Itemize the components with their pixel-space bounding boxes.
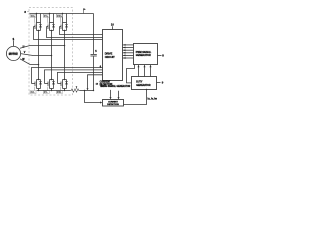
- upper transistor cell Tv+: [47, 13, 55, 31]
- svg-text:3: 3: [24, 10, 26, 14]
- diode Du+: [40, 23, 42, 31]
- junction dots: [36, 13, 37, 14]
- gate bar: [34, 25, 36, 30]
- current detection block 11: [103, 100, 124, 107]
- svg-text:CIRCUIT: CIRCUIT: [105, 55, 115, 59]
- lower gate bus to Tv-: [45, 70, 103, 84]
- timing->current-detection arrow b: [118, 91, 120, 99]
- lower gate bus to Tw-: [58, 72, 103, 83]
- svg-text:2W+: 2W+: [57, 14, 63, 18]
- svg-text:9: 9: [162, 81, 164, 85]
- current detection output wire to duty generator: [124, 90, 147, 105]
- svg-text:TIMING SIGNAL GENERATOR: TIMING SIGNAL GENERATOR: [100, 85, 131, 88]
- upper gate bus to Tw+: [60, 27, 103, 35]
- svg-text:2V+: 2V+: [44, 14, 49, 18]
- upper transistor cell Tu+: [34, 13, 42, 31]
- pin stub + label 10: [112, 26, 114, 29]
- svg-text:2U-: 2U-: [31, 90, 35, 94]
- phase leg node w: [64, 31, 66, 80]
- svg-text:7: 7: [76, 86, 78, 89]
- timing->current-detection arrow a: [110, 90, 112, 99]
- bottom DC rail (right part): [80, 90, 94, 92]
- svg-text:8: 8: [162, 54, 164, 58]
- motor M1: [6, 46, 20, 60]
- phase leg node v: [51, 31, 53, 80]
- upper gate bus to Tv+: [47, 27, 103, 38]
- shunt tap wire to current detection: [85, 91, 102, 103]
- gate signal lines pwm->drive (6): [123, 44, 134, 59]
- label Tw+: [56, 14, 62, 24]
- smoothing capacitor 5: [93, 14, 95, 55]
- upper transistor cell Tw+: [60, 13, 68, 31]
- duty->pwm arrow u: [138, 65, 140, 76]
- bottom DC rail (N bus): [37, 90, 71, 92]
- node P flag: [83, 9, 85, 14]
- lower transistor cell Tw-: [58, 79, 68, 91]
- inverter dashed enclosure (block 3): [29, 8, 73, 96]
- label Tu-: [30, 86, 36, 94]
- svg-text:W: W: [22, 58, 25, 61]
- PWM signal generator block 8: [134, 44, 158, 65]
- shunt resistor 7: [71, 89, 80, 92]
- svg-text:iu, iv, iw: iu, iv, iw: [148, 97, 158, 101]
- svg-text:12: 12: [96, 83, 99, 85]
- label Tv-: [43, 86, 49, 94]
- svg-text:10: 10: [111, 23, 114, 27]
- phase leg node u: [38, 31, 40, 80]
- svg-text:DUTY: DUTY: [136, 82, 143, 84]
- gate lead: [34, 26, 36, 28]
- svg-text:GENERATOR: GENERATOR: [136, 84, 151, 87]
- top join: [37, 22, 41, 24]
- svg-text:2U+: 2U+: [31, 14, 36, 18]
- shunt sense bus: [88, 75, 103, 90]
- svg-text:5: 5: [95, 50, 97, 53]
- wire drain stubs: [36, 14, 38, 23]
- duty->pwm arrow v: [144, 65, 146, 76]
- label Tw-: [56, 86, 62, 94]
- pin + label 9: [157, 82, 161, 84]
- drive circuit block 10: [103, 30, 123, 81]
- svg-text:V: V: [24, 51, 26, 54]
- duty->pwm arrow w: [150, 65, 152, 76]
- timing generator caption: [100, 82, 131, 88]
- motor line U: [20, 46, 65, 49]
- svg-text:1: 1: [13, 37, 15, 41]
- lower gate bus to Tu-: [32, 68, 103, 84]
- lower transistor cell Tu-: [32, 79, 42, 91]
- pwm->duty feedback wire: [127, 65, 135, 83]
- upper gate bus to Tu+: [34, 27, 103, 40]
- label Tv+: [43, 14, 49, 24]
- channel: [36, 23, 38, 31]
- svg-text:DETECTION: DETECTION: [107, 104, 119, 106]
- motor line V: [21, 54, 52, 56]
- motor line W: [20, 59, 39, 65]
- pin + label 8: [158, 55, 162, 57]
- lower transistor cell Tv-: [45, 79, 55, 91]
- bottom join: [37, 30, 41, 32]
- svg-text:GENERATOR: GENERATOR: [136, 54, 151, 57]
- label Tu+: [30, 14, 36, 24]
- top DC rail (P bus): [30, 13, 94, 15]
- motor stub + label 1: [13, 41, 15, 47]
- leader for 3: [27, 10, 29, 13]
- svg-text:MOTOR: MOTOR: [9, 52, 18, 55]
- duty generator block 9: [132, 77, 157, 90]
